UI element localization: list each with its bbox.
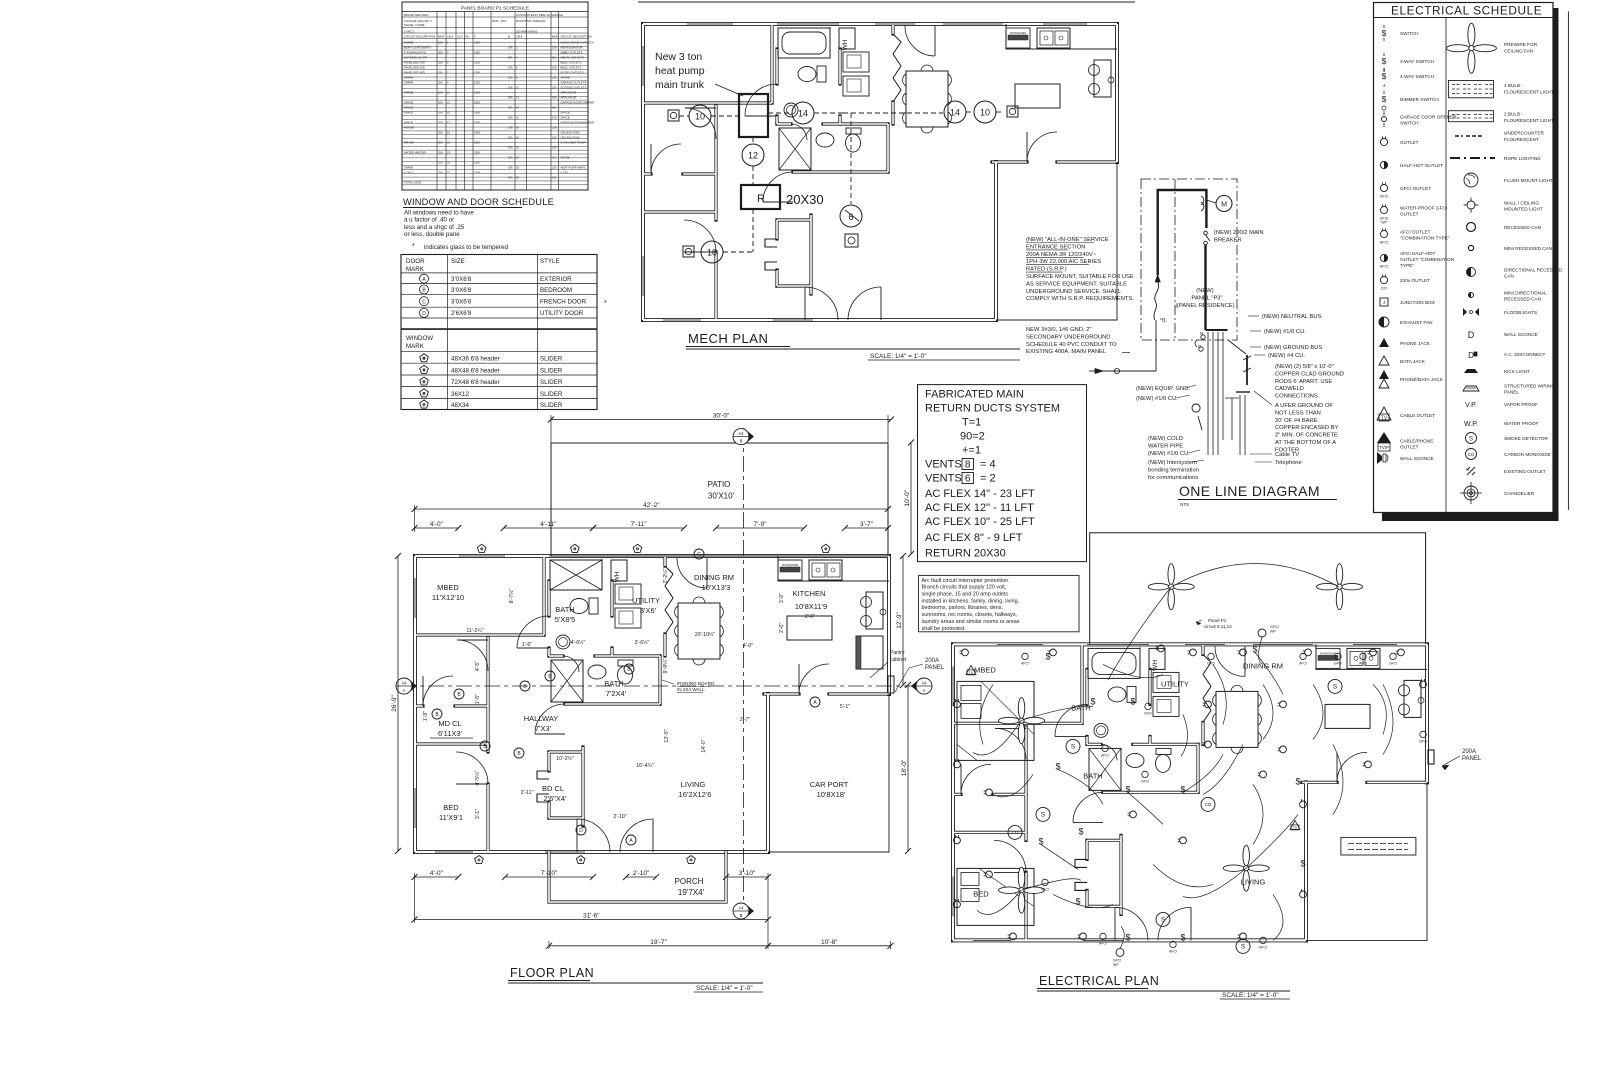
wall white core <box>643 23 1117 25</box>
svg-text:SPARE: SPARE <box>404 81 413 85</box>
svg-text:UTILITY: UTILITY <box>632 596 660 605</box>
svg-text:1500: 1500 <box>474 61 480 65</box>
svg-text:AC FLEX 8" - 9 LFT: AC FLEX 8" - 9 LFT <box>925 532 1023 544</box>
svg-text:SECONDARY UNDERGROUND: SECONDARY UNDERGROUND <box>1026 334 1111 340</box>
svg-text:(NEW) #1/0 CU.: (NEW) #1/0 CU. <box>1136 396 1178 402</box>
svg-text:MARK: MARK <box>406 266 425 273</box>
svg-text:16'2X12'6: 16'2X12'6 <box>679 790 712 799</box>
door arcs <box>995 728 1026 759</box>
CO detectors <box>1008 825 1022 839</box>
svg-text:T=1: T=1 <box>962 417 981 429</box>
svg-text:(NEW) EQUIP. GND.: (NEW) EQUIP. GND. <box>1136 386 1190 392</box>
svg-text:1500: 1500 <box>474 121 480 125</box>
svg-text:BATH: BATH <box>1071 703 1090 712</box>
wall black layer <box>415 554 889 558</box>
svg-text:MBED: MBED <box>974 665 996 674</box>
svg-text:DISPOSAL/DISHWASHER: DISPOSAL/DISHWASHER <box>561 121 595 125</box>
svg-text:APPLIANCE: APPLIANCE <box>561 91 577 95</box>
svg-text:A4: A4 <box>738 906 744 911</box>
svg-text:bedrooms, parlors, libraries,: bedrooms, parlors, libraries, dens, <box>922 605 1004 611</box>
svg-text:REFRIGERATOR: REFRIGERATOR <box>561 46 583 50</box>
svg-text:CADWELD: CADWELD <box>1275 386 1304 392</box>
svg-text:4' DOWNLIGHTS: 4' DOWNLIGHTS <box>404 51 426 55</box>
svg-text:20' OF #4 BARE: 20' OF #4 BARE <box>1275 418 1318 424</box>
svg-text:J: J <box>1383 300 1385 305</box>
svg-text:90=2: 90=2 <box>960 431 985 443</box>
windows <box>459 555 505 557</box>
svg-text:New 3 ton: New 3 ton <box>655 51 702 63</box>
meter M <box>1201 196 1204 211</box>
svg-text:CAR PORT: CAR PORT <box>810 780 849 789</box>
svg-text:SWITCH: SWITCH <box>1400 31 1419 36</box>
svg-text:UTILITY: UTILITY <box>1161 679 1189 688</box>
heat pump unit <box>739 94 768 137</box>
svg-text:SLIDER: SLIDER <box>540 379 563 386</box>
svg-text:$: $ <box>1180 784 1185 794</box>
svg-text:+=1: +=1 <box>962 445 981 457</box>
svg-text:VENTS: VENTS <box>925 459 962 471</box>
svg-text:SPACE: SPACE <box>404 121 413 125</box>
svg-text:48X48 6'8 header: 48X48 6'8 header <box>451 367 500 374</box>
svg-text:BED: BED <box>443 803 459 812</box>
svg-text:BKR: BKR <box>552 35 558 39</box>
svg-text:MBED: MBED <box>437 583 459 592</box>
svg-text:20A: 20A <box>508 66 513 70</box>
200A panel mark <box>888 676 894 693</box>
svg-text:SCALE: 1/4" = 1'-0": SCALE: 1/4" = 1'-0" <box>696 985 753 992</box>
svg-text:STYLE: STYLE <box>540 258 560 265</box>
svg-text:CO: CO <box>1205 802 1212 807</box>
svg-text:or less, double pane: or less, double pane <box>404 231 460 238</box>
svg-text:(NEW): (NEW) <box>1196 288 1213 294</box>
svg-text:GFCI: GFCI <box>1334 661 1342 665</box>
svg-text:CIRCUIT DESCRIPTION: CIRCUIT DESCRIPTION <box>561 35 592 39</box>
svg-text:GFCI: GFCI <box>1270 625 1279 629</box>
svg-text:30'-0": 30'-0" <box>713 413 730 420</box>
svg-text:20A: 20A <box>438 71 443 75</box>
legend rope lighting <box>1450 157 1495 159</box>
svg-text:Branch circuits that supply 12: Branch circuits that supply 120 volt, <box>922 585 1007 591</box>
duct 12 <box>742 144 764 166</box>
svg-text:DINING RM: DINING RM <box>694 573 734 582</box>
svg-text:2'-10": 2'-10" <box>633 870 650 877</box>
patio fans <box>1168 564 1175 585</box>
svg-text:2 BULB -: 2 BULB - <box>1504 112 1523 117</box>
svg-text:(NEW) #1/0 CU.: (NEW) #1/0 CU. <box>1148 451 1190 457</box>
svg-text:M: M <box>1221 202 1227 209</box>
svg-text:RETURN 20X30: RETURN 20X30 <box>925 548 1006 560</box>
svg-text:1'-6": 1'-6" <box>522 642 532 648</box>
svg-text:WATER HEATER: WATER HEATER <box>404 151 426 155</box>
svg-text:SCALE: 1/4" = 1'-0": SCALE: 1/4" = 1'-0" <box>870 353 927 360</box>
svg-text:3'-7": 3'-7" <box>860 521 874 528</box>
svg-text:12: 12 <box>748 151 758 161</box>
svg-text:SLIDER: SLIDER <box>540 391 563 398</box>
svg-text:2'6"X4': 2'6"X4' <box>543 794 567 803</box>
svg-text:CB #: CB # <box>516 35 523 39</box>
door mark circles <box>454 689 464 699</box>
return R 20X30 <box>741 185 780 209</box>
svg-text:less and a shgc of .25: less and a shgc of .25 <box>404 224 465 231</box>
svg-text:ENTRANCE SECTION: ENTRANCE SECTION <box>1026 244 1085 250</box>
svg-text:SWITCH: SWITCH <box>1400 120 1419 125</box>
svg-text:8'-7½": 8'-7½" <box>508 589 515 604</box>
svg-text:BRAND SIEM NEM: BRAND SIEM NEM <box>404 13 429 17</box>
panel feeder <box>1204 245 1206 330</box>
ufer lines <box>1228 340 1246 354</box>
svg-text:DISHWASHER: DISHWASHER <box>1320 652 1336 655</box>
svg-text:*: * <box>604 300 607 307</box>
svg-text:S: S <box>1161 917 1166 924</box>
svg-text:NOT LESS THAN: NOT LESS THAN <box>1275 410 1321 416</box>
svg-text:$: $ <box>1180 932 1185 942</box>
svg-text:3'-10": 3'-10" <box>739 870 756 877</box>
svg-text:20A: 20A <box>508 176 513 180</box>
svg-text:COPPER CLAD GROUND: COPPER CLAD GROUND <box>1275 371 1344 377</box>
svg-text:SURFACE MOUNT, SUITABLE FOR US: SURFACE MOUNT, SUITABLE FOR USE <box>1026 274 1134 280</box>
svg-text:$: $ <box>1382 71 1387 81</box>
svg-text:TV: TV <box>1293 826 1298 830</box>
svg-text:7'X3': 7'X3' <box>535 724 552 733</box>
svg-text:19'-7": 19'-7" <box>650 939 667 946</box>
svg-text:BD CL: BD CL <box>542 784 564 793</box>
panel board P1 schedule table <box>402 2 588 190</box>
svg-text:STRUCTURED WIRING: STRUCTURED WIRING <box>1504 384 1555 389</box>
section line A4 vertical <box>743 428 745 908</box>
svg-text:13'-9": 13'-9" <box>664 729 670 742</box>
svg-text:CIRCUIT DESCRIPTION: CIRCUIT DESCRIPTION <box>404 35 435 39</box>
svg-text:TV: TV <box>1381 416 1388 422</box>
svg-text:PHONE JACK: PHONE JACK <box>1400 341 1431 346</box>
wire <box>678 603 720 659</box>
svg-text:20A: 20A <box>508 96 513 100</box>
svg-text:ROPE LIGHTING: ROPE LIGHTING <box>1504 156 1541 161</box>
svg-text:A: A <box>923 688 926 693</box>
svg-text:A: A <box>403 688 406 693</box>
svg-text:IN 2X4 WALL: IN 2X4 WALL <box>677 687 705 692</box>
svg-text:WP: WP <box>1381 221 1387 225</box>
svg-text:20X30: 20X30 <box>786 192 824 207</box>
svg-text:AFCI: AFCI <box>1380 265 1388 269</box>
svg-text:A UFER GROUND OF: A UFER GROUND OF <box>1275 403 1333 409</box>
svg-text:Telephone: Telephone <box>1275 460 1302 466</box>
svg-text:9'-9¼": 9'-9¼" <box>663 659 669 674</box>
svg-text:2" MIN. OF CONCRETE: 2" MIN. OF CONCRETE <box>1275 433 1338 439</box>
svg-text:20A: 20A <box>438 161 443 165</box>
svg-text:KICK LIGHT: KICK LIGHT <box>1504 369 1530 374</box>
svg-text:20A: 20A <box>438 111 443 115</box>
svg-text:16'-4¼": 16'-4¼" <box>636 763 654 769</box>
svg-text:LIVING: LIVING <box>1241 877 1266 886</box>
svg-text:UTILITY DOOR: UTILITY DOOR <box>540 310 584 317</box>
svg-text:SLIDER: SLIDER <box>540 402 563 409</box>
svg-text:12'-9": 12'-9" <box>896 612 903 629</box>
svg-text:(NEW) #1/0 CU.: (NEW) #1/0 CU. <box>1264 329 1306 335</box>
svg-text:AFCI: AFCI <box>1169 949 1177 953</box>
svg-text:PU: PU <box>466 35 470 39</box>
svg-text:D: D <box>1468 330 1475 340</box>
svg-text:20A: 20A <box>438 141 443 145</box>
legend undercounter <box>1455 135 1463 137</box>
svg-text:SLIDER: SLIDER <box>540 367 563 374</box>
svg-text:2'-11": 2'-11" <box>521 790 534 796</box>
svg-text:SPARE: SPARE <box>404 76 413 80</box>
svg-text:15A: 15A <box>552 46 557 50</box>
svg-text:WP: WP <box>1270 630 1276 634</box>
svg-text:bonding termination: bonding termination <box>1148 468 1199 474</box>
svg-text:20A: 20A <box>438 101 443 105</box>
svg-text:20A: 20A <box>508 136 513 140</box>
svg-text:11'X9'1: 11'X9'1 <box>439 813 463 822</box>
svg-text:*f1: *f1 <box>1160 318 1166 324</box>
svg-text:$: $ <box>1295 776 1300 786</box>
svg-text:SPACE: SPACE <box>561 116 570 120</box>
svg-text:11'-2¼": 11'-2¼" <box>466 628 483 634</box>
bottom dims <box>415 876 459 878</box>
svg-text:15A: 15A <box>552 136 557 140</box>
svg-text:1500: 1500 <box>474 171 480 175</box>
main breaker <box>1204 231 1208 235</box>
svg-text:15A: 15A <box>552 66 557 70</box>
svg-text:CABLE OUTLET: CABLE OUTLET <box>1400 413 1435 418</box>
svg-text:15A: 15A <box>552 126 557 130</box>
svg-text:EXISTING OUTLET: EXISTING OUTLET <box>1504 469 1546 474</box>
svg-text:B: B <box>423 368 426 373</box>
electrical schedule box <box>1374 3 1554 513</box>
svg-text:A4: A4 <box>738 431 744 436</box>
svg-text:1500: 1500 <box>474 41 480 45</box>
svg-text:PORCH: PORCH <box>675 877 704 886</box>
svg-text:FABRICATED MAIN: FABRICATED MAIN <box>925 389 1024 401</box>
svg-text:BED: BED <box>973 889 989 898</box>
svg-text:3'0X6'8: 3'0X6'8 <box>451 299 472 306</box>
svg-text:PHONE/DATA JACK: PHONE/DATA JACK <box>1400 377 1444 382</box>
svg-text:BATH: BATH <box>604 679 623 688</box>
svg-text:MOUNTING SURFACE: MOUNTING SURFACE <box>516 19 545 23</box>
svg-text:(NEW) (2) 5/8" x 10'-0": (NEW) (2) 5/8" x 10'-0" <box>1275 364 1334 370</box>
svg-text:FLOODLIGHTS: FLOODLIGHTS <box>1504 310 1537 315</box>
svg-text:COPPER ENCASED BY: COPPER ENCASED BY <box>1275 425 1339 431</box>
svg-text:PREWIRE FOR: PREWIRE FOR <box>1504 42 1538 47</box>
svg-text:H: H <box>1466 467 1469 472</box>
svg-text:circuit 9,11,13: circuit 9,11,13 <box>1204 624 1232 629</box>
svg-text:220v OUTLET: 220v OUTLET <box>1400 278 1430 283</box>
svg-text:OUTLET: OUTLET <box>1400 211 1419 216</box>
svg-text:31'-6": 31'-6" <box>583 913 600 920</box>
svg-text:ENTRY OUTLETS: ENTRY OUTLETS <box>561 71 584 75</box>
svg-text:OUTLET: OUTLET <box>1400 140 1419 145</box>
svg-text:RODS 6' APART. USE: RODS 6' APART. USE <box>1275 379 1332 385</box>
svg-text:FLOURESCENT: FLOURESCENT <box>1504 137 1539 142</box>
carport thin outline <box>768 694 889 852</box>
svg-text:3'0X6'8: 3'0X6'8 <box>451 287 472 294</box>
svg-text:WH: WH <box>842 39 849 50</box>
svg-text:15A: 15A <box>552 106 557 110</box>
svg-text:4'-11": 4'-11" <box>540 521 557 528</box>
svg-text:4'-5¼": 4'-5¼" <box>475 771 481 786</box>
svg-text:RECESSED CAN: RECESSED CAN <box>1504 225 1541 230</box>
svg-text:heat pump: heat pump <box>655 65 705 77</box>
svg-text:$: $ <box>1300 858 1305 868</box>
svg-text:CO: CO <box>1468 452 1475 457</box>
svg-text:15A: 15A <box>552 96 557 100</box>
svg-text:PANEL: PANEL <box>1504 389 1519 394</box>
wall black layer <box>953 642 1427 646</box>
GFCI marks <box>1145 703 1151 709</box>
svg-text:FLOURESCENT LIGHT: FLOURESCENT LIGHT <box>1504 90 1554 95</box>
svg-text:10: 10 <box>980 108 990 118</box>
svg-text:WALL SCONCE: WALL SCONCE <box>1400 456 1434 461</box>
svg-text:WINDOW: WINDOW <box>406 335 433 342</box>
pantry cabinet <box>856 636 883 669</box>
svg-text:SIZE: SIZE <box>451 258 465 265</box>
svg-text:TOTAL LOAD: TOTAL LOAD <box>404 181 421 185</box>
svg-text:W.P.: W.P. <box>1464 421 1478 428</box>
svg-text:DATA JACK: DATA JACK <box>1400 359 1426 364</box>
svg-text:PANEL: PANEL <box>925 665 945 671</box>
svg-text:6'11X3': 6'11X3' <box>438 729 463 738</box>
extra branch wires <box>1103 664 1163 677</box>
service entrance dashed enclosure <box>1141 179 1237 340</box>
gfci wp outlet top <box>1258 629 1266 637</box>
ceiling fans <box>1018 698 1025 719</box>
svg-text:4'-0": 4'-0" <box>430 521 444 528</box>
svg-text:200A - 1PH: 200A - 1PH <box>492 19 506 23</box>
svg-text:20A: 20A <box>508 116 513 120</box>
svg-text:LIVING: LIVING <box>681 780 706 789</box>
svg-text:FLOOR PLAN: FLOOR PLAN <box>510 966 594 980</box>
svg-text:DIMMER SWITCH: DIMMER SWITCH <box>1400 97 1439 102</box>
svg-text:4'-0": 4'-0" <box>743 643 753 649</box>
svg-text:MOUNTED LIGHT: MOUNTED LIGHT <box>1504 206 1543 211</box>
wire <box>778 28 830 58</box>
svg-text:10'X13'3: 10'X13'3 <box>702 583 731 592</box>
svg-text:LOAD /: LOAD / <box>404 171 413 175</box>
svg-text:PANELIZED WD: PANELIZED WD <box>404 61 425 65</box>
svg-text:20A: 20A <box>438 91 443 95</box>
svg-text:IRONING BOARD: IRONING BOARD <box>677 681 715 686</box>
svg-text:AFCI: AFCI <box>1041 887 1049 891</box>
window pentagon marks top <box>477 544 486 552</box>
svg-text:A.C. DISCONNECT: A.C. DISCONNECT <box>1504 352 1546 357</box>
svg-text:NEW 3#3/0, 1#6 GND, 2": NEW 3#3/0, 1#6 GND, 2" <box>1026 327 1092 333</box>
svg-text:20A: 20A <box>508 56 513 60</box>
duct symbols left <box>668 110 679 121</box>
svg-text:GARAGE OUTLETS: GARAGE OUTLETS <box>561 81 587 85</box>
svg-text:RANGE: RANGE <box>404 126 414 130</box>
svg-text:EXTERIOR: EXTERIOR <box>540 276 572 283</box>
svg-text:20A: 20A <box>508 46 513 50</box>
svg-text:WATER PROOF: WATER PROOF <box>1504 421 1539 426</box>
svg-text:15A: 15A <box>552 56 557 60</box>
svg-text:GFCI: GFCI <box>1144 711 1152 715</box>
svg-text:VENTS: VENTS <box>925 473 962 485</box>
svg-text:6: 6 <box>965 474 971 485</box>
section line A-A horizontal <box>400 685 928 687</box>
svg-text:$: $ <box>1130 696 1135 706</box>
svg-text:SPARE: SPARE <box>404 41 413 45</box>
svg-text:3'X6': 3'X6' <box>640 606 657 615</box>
svg-text:2'-0": 2'-0" <box>779 623 785 633</box>
svg-text:20A: 20A <box>438 121 443 125</box>
svg-text:$: $ <box>1125 932 1130 942</box>
beds <box>957 681 1034 760</box>
wire <box>1316 644 1427 669</box>
svg-text:PANEL BOARD P1 SCHEDULE: PANEL BOARD P1 SCHEDULE <box>461 6 529 12</box>
svg-text:R: R <box>757 193 765 205</box>
svg-text:5'X8'5: 5'X8'5 <box>555 615 575 624</box>
svg-text:200A: 200A <box>1462 749 1476 755</box>
svg-text:|(PANEL RESIDENCE): |(PANEL RESIDENCE) <box>1175 303 1234 309</box>
svg-text:A4: A4 <box>921 681 927 686</box>
svg-text:SPACE: SPACE <box>404 111 413 115</box>
svg-text:AC FLEX 12" - 11 LFT: AC FLEX 12" - 11 LFT <box>925 502 1034 514</box>
svg-text:(NEW) NEUTRAL BUS: (NEW) NEUTRAL BUS <box>1262 314 1322 320</box>
left dim 26-9 <box>397 556 399 851</box>
svg-text:All windows need to have: All windows need to have <box>404 210 474 217</box>
svg-text:BED2 OUTLETS: BED2 OUTLETS <box>561 66 582 70</box>
structured wiring panel <box>1341 837 1416 855</box>
svg-text:7'-10": 7'-10" <box>541 870 558 877</box>
svg-text:BATH: BATH <box>555 605 574 614</box>
sheet border right <box>1567 12 1569 511</box>
svg-text:20A: 20A <box>438 171 443 175</box>
svg-text:D: D <box>579 828 583 834</box>
svg-text:GFCI OUTLET: GFCI OUTLET <box>1400 186 1431 191</box>
svg-text:14: 14 <box>950 108 960 118</box>
svg-text:DISHWASHER: DISHWASHER <box>1010 32 1026 35</box>
svg-text:CHANDELIER: CHANDELIER <box>1504 491 1535 496</box>
svg-text:CARBON MONOXIDE: CARBON MONOXIDE <box>1504 452 1551 457</box>
svg-text:OUTSIDE OUTLETS: OUTSIDE OUTLETS <box>561 86 587 90</box>
svg-text:DIRECTIONAL RECESSED: DIRECTIONAL RECESSED <box>1504 268 1563 273</box>
legend ceiling fan <box>1468 23 1475 46</box>
svg-text:HALF-HOT OUTLET: HALF-HOT OUTLET <box>1400 163 1443 168</box>
wire <box>1088 648 1140 678</box>
neutral/ground bus <box>1206 329 1228 331</box>
svg-text:(NEW) #4 CU.: (NEW) #4 CU. <box>1268 353 1305 359</box>
svg-text:DINING ROOM OUTLETS: DINING ROOM OUTLETS <box>561 41 594 45</box>
svg-text:= 4: = 4 <box>980 459 996 471</box>
svg-text:CEILING FANS: CEILING FANS <box>561 131 580 135</box>
svg-text:EXHAUST FAN: EXHAUST FAN <box>1400 320 1432 325</box>
svg-text:D: D <box>1468 351 1474 360</box>
elec patio outline <box>1090 533 1426 644</box>
svg-text:4-WAY SWITCH: 4-WAY SWITCH <box>1400 74 1434 79</box>
svg-text:2'6X6'8: 2'6X6'8 <box>451 310 472 317</box>
svg-text:4'-0": 4'-0" <box>430 870 444 877</box>
svg-text:GFCI: GFCI <box>1141 779 1149 783</box>
svg-text:1500: 1500 <box>474 151 480 155</box>
svg-text:(NEW) 200/2 MAIN: (NEW) 200/2 MAIN <box>1214 230 1264 236</box>
window pentagon marks bottom <box>475 856 484 864</box>
svg-text:3-WAY SWITCH: 3-WAY SWITCH <box>1400 59 1434 64</box>
svg-text:15A: 15A <box>552 86 557 90</box>
svg-text:+ 15A: + 15A <box>561 171 569 175</box>
right dims <box>910 443 912 555</box>
svg-text:laundry areas and similar room: laundry areas and similar rooms or areas <box>922 619 1020 625</box>
windows <box>687 23 733 25</box>
svg-text:JUNCTION BOX: JUNCTION BOX <box>1400 300 1436 305</box>
svg-text:20A: 20A <box>438 51 443 55</box>
svg-text:S: S <box>1071 744 1076 751</box>
svg-text:200A NEMA 3R 120/240V~: 200A NEMA 3R 120/240V~ <box>1026 252 1097 258</box>
svg-text:GFCI: GFCI <box>1419 739 1427 743</box>
svg-text:48X34: 48X34 <box>451 402 469 409</box>
svg-text:(NEW) COLD: (NEW) COLD <box>1148 436 1183 442</box>
svg-text:FLOURESCENT LIGHT: FLOURESCENT LIGHT <box>1504 118 1554 123</box>
svg-text:SPARE: SPARE <box>561 156 570 160</box>
